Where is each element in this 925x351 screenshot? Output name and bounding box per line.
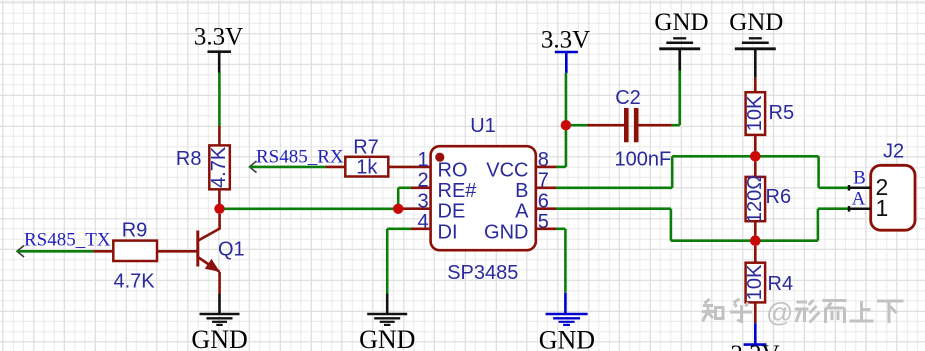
svg-text:10K: 10K [744, 264, 766, 300]
svg-text:R6: R6 [766, 186, 792, 208]
svg-text:1k: 1k [356, 157, 378, 179]
power 3.3V top-left [194, 24, 243, 73]
svg-text:R4: R4 [768, 273, 794, 295]
wire pin6 to A [556, 209, 671, 241]
junction node collector/DE [214, 204, 224, 214]
svg-text:A: A [852, 188, 866, 209]
svg-text:SP3485: SP3485 [447, 262, 518, 284]
power 3.3V mid (blue bar) [541, 27, 590, 73]
svg-text:GND: GND [359, 325, 415, 351]
connector J2 [871, 141, 915, 231]
wire junction to pin8 VCC [556, 125, 566, 167]
svg-text:3: 3 [417, 190, 428, 212]
wire DI to ground [387, 229, 411, 294]
pin 5 stub [536, 228, 556, 231]
junction node B net [750, 151, 761, 162]
svg-text:@: @ [766, 298, 793, 328]
svg-text:B: B [515, 180, 528, 202]
power GND left [654, 9, 708, 71]
junction node A net [750, 235, 761, 246]
ground blue under pin5 [539, 293, 595, 351]
resistor R7 [326, 137, 431, 179]
wire 3.3V to R8 [218, 73, 221, 127]
power 3.3V bottom [730, 323, 779, 351]
pin numbers U1 [417, 149, 548, 233]
wire A right vertical [818, 209, 849, 241]
svg-text:100nF: 100nF [615, 148, 672, 170]
svg-text:3.3V: 3.3V [194, 24, 243, 51]
svg-text:4.7K: 4.7K [114, 271, 156, 293]
wire pin7 to B vertical [556, 187, 672, 190]
resistor R8 [176, 126, 230, 209]
junction node VCC/C2 [561, 120, 571, 130]
wire B left vertical [671, 156, 674, 188]
svg-text:DE: DE [438, 201, 466, 223]
svg-text:RS485_TX: RS485_TX [24, 229, 111, 250]
svg-text:RE#: RE# [438, 180, 478, 202]
wire junction to pin3 [403, 207, 431, 210]
power GND right [729, 9, 783, 77]
svg-text:10K: 10K [744, 95, 766, 131]
svg-text:GND: GND [484, 221, 528, 243]
resistor R5 [744, 77, 794, 151]
pin 7 stub [536, 187, 556, 190]
svg-text:1: 1 [417, 149, 428, 171]
net RS485_TX wire and arrow [17, 229, 111, 257]
resistor R9 [94, 220, 158, 293]
svg-text:R8: R8 [176, 148, 202, 170]
ground under Q1 [191, 294, 247, 351]
svg-text:120Ω: 120Ω [744, 175, 766, 223]
pin 4 stub [411, 228, 431, 231]
svg-text:B: B [853, 168, 866, 189]
svg-text:2: 2 [417, 170, 428, 192]
net RS485_RX wire and arrow [250, 147, 344, 173]
svg-text:4.7K: 4.7K [208, 146, 230, 188]
wire junction to pin2 [398, 188, 430, 209]
wire B net top line [672, 155, 818, 158]
ground under DI [359, 294, 415, 351]
svg-text:RS485_RX: RS485_RX [256, 147, 344, 168]
resistor R6 [744, 162, 791, 236]
transistor Q1 [157, 214, 245, 294]
svg-text:3.3V: 3.3V [730, 341, 779, 351]
wire A net bottom line [671, 239, 818, 242]
svg-text:R5: R5 [769, 102, 795, 124]
wire DE net horizontal [225, 208, 394, 211]
junction node DE/RE [393, 204, 403, 214]
watermark [702, 299, 904, 323]
svg-text:A: A [515, 201, 529, 223]
wire B right vertical [819, 156, 849, 188]
pin 6 stub [536, 207, 556, 210]
pin 8 stub [536, 166, 556, 169]
J2 pin 2 lead [848, 185, 870, 191]
svg-text:J2: J2 [883, 141, 904, 163]
svg-text:GND: GND [191, 325, 247, 351]
svg-text:Q1: Q1 [218, 239, 245, 261]
wire C2 to GND power [678, 71, 681, 126]
svg-text:1: 1 [876, 195, 889, 221]
capacitor C2 [571, 87, 680, 170]
wire pin5 to ground [556, 229, 565, 293]
svg-text:GND: GND [539, 326, 595, 351]
svg-text:VCC: VCC [486, 159, 528, 181]
svg-text:R7: R7 [353, 137, 379, 159]
svg-text:DI: DI [438, 221, 458, 243]
svg-text:RO: RO [438, 159, 468, 181]
svg-text:C2: C2 [615, 87, 641, 109]
resistor R4 [744, 246, 793, 323]
svg-text:3.3V: 3.3V [541, 27, 590, 54]
svg-text:GND: GND [654, 9, 708, 36]
wire 3.3V to junction [565, 73, 568, 125]
op-amp U1 body SP3485 [431, 115, 536, 284]
svg-text:GND: GND [729, 9, 783, 36]
svg-text:R9: R9 [122, 220, 148, 242]
svg-text:U1: U1 [470, 115, 496, 137]
J2 pin 1 lead [848, 206, 870, 212]
